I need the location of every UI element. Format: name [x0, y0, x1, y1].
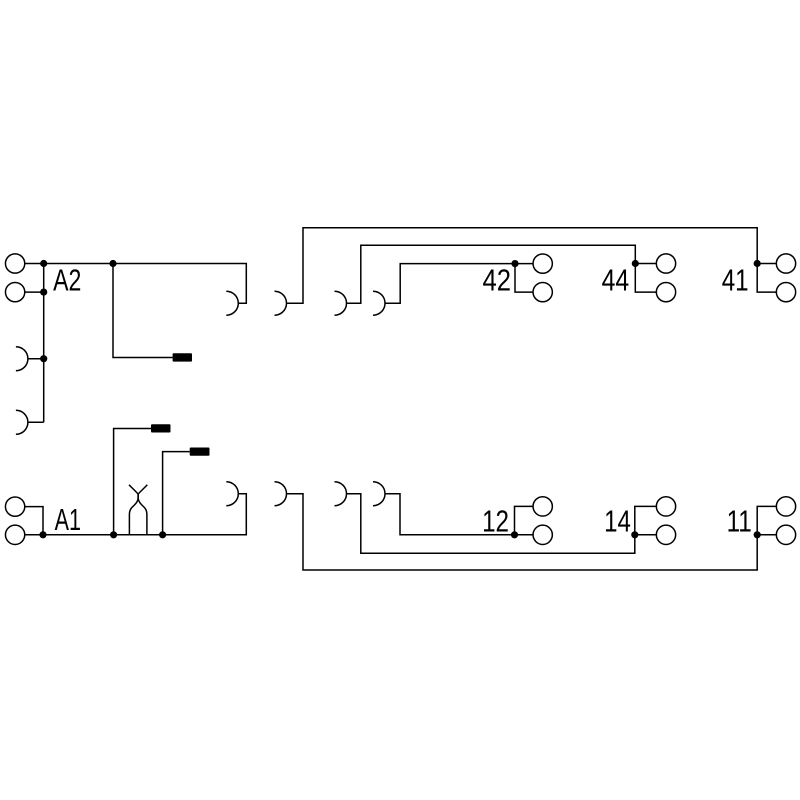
svg-text:11: 11: [727, 504, 752, 539]
svg-text:12: 12: [482, 504, 509, 539]
svg-text:A2: A2: [53, 262, 81, 297]
svg-text:44: 44: [602, 263, 630, 297]
svg-text:A1: A1: [55, 502, 81, 537]
svg-text:42: 42: [482, 263, 511, 298]
svg-text:41: 41: [722, 263, 749, 298]
svg-text:14: 14: [604, 504, 631, 539]
